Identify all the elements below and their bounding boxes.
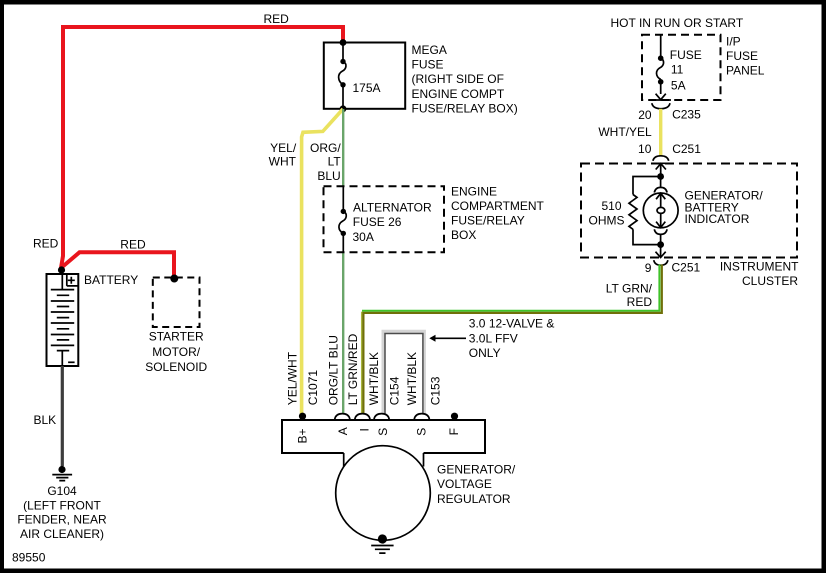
svg-text:(RIGHT SIDE OF: (RIGHT SIDE OF bbox=[412, 72, 504, 86]
svg-text:10: 10 bbox=[638, 142, 652, 156]
connector bump terminal I bbox=[355, 414, 370, 420]
svg-text:REGULATOR: REGULATOR bbox=[437, 492, 511, 506]
alternator fuse 26 box bbox=[324, 186, 445, 252]
svg-text:YEL/: YEL/ bbox=[270, 141, 297, 155]
wire RED battery to mega fuse bbox=[61, 27, 343, 268]
svg-text:STARTER: STARTER bbox=[149, 330, 204, 344]
svg-text:11: 11 bbox=[671, 63, 684, 77]
svg-text:GENERATOR/: GENERATOR/ bbox=[437, 463, 516, 477]
connector C235 bbox=[651, 100, 671, 109]
connector C251 bottom bbox=[654, 245, 668, 266]
svg-text:MEGA: MEGA bbox=[412, 43, 447, 57]
svg-text:FUSE/RELAY: FUSE/RELAY bbox=[451, 214, 525, 228]
svg-text:5A: 5A bbox=[671, 78, 686, 92]
svg-text:C251: C251 bbox=[672, 142, 701, 156]
mega fuse 175A bbox=[324, 39, 405, 112]
svg-text:WHT: WHT bbox=[269, 154, 297, 168]
node terminal B+ bbox=[299, 413, 306, 420]
svg-text:FUSE/RELAY BOX): FUSE/RELAY BOX) bbox=[412, 102, 518, 116]
svg-text:MOTOR/: MOTOR/ bbox=[152, 345, 200, 359]
node cluster top junction bbox=[657, 173, 664, 180]
label ENGINE COMPARTMENT FUSE/RELAY BOX bbox=[451, 185, 545, 243]
wire WHT/BLK jumper between S terminals bbox=[383, 331, 424, 413]
wire LT GRN/RED cluster to generator I (red stripe part) bbox=[363, 265, 661, 414]
svg-text:FUSE: FUSE bbox=[412, 58, 444, 72]
wire WHT/YEL fuse 11 to instrument cluster bbox=[659, 109, 662, 156]
wire LT GRN/RED cluster to generator I (green part) bbox=[362, 265, 659, 311]
svg-text:ENGINE COMPT: ENGINE COMPT bbox=[412, 87, 505, 101]
svg-text:3.0L FFV: 3.0L FFV bbox=[469, 331, 518, 345]
label G104 (LEFT FRONT FENDER, NEAR AIR CLEANER) bbox=[17, 484, 107, 541]
svg-text:RED: RED bbox=[120, 238, 146, 252]
label LT GRN/RED (right) bbox=[606, 282, 653, 310]
svg-text:FUSE 26: FUSE 26 bbox=[353, 215, 402, 229]
label FUSE 11 5A bbox=[670, 48, 702, 92]
svg-text:ENGINE: ENGINE bbox=[451, 185, 497, 199]
svg-text:ORG/LT BLU: ORG/LT BLU bbox=[326, 335, 340, 405]
label STARTER MOTOR/SOLENOID bbox=[145, 330, 207, 375]
wire BLK battery to ground bbox=[61, 366, 64, 466]
svg-text:3.0 12-VALVE &: 3.0 12-VALVE & bbox=[469, 317, 555, 331]
svg-text:9: 9 bbox=[645, 261, 652, 275]
svg-text:BOX: BOX bbox=[451, 228, 476, 242]
I/P fuse panel box bbox=[642, 35, 721, 100]
battery bbox=[47, 274, 79, 366]
node starter solenoid terminal bbox=[170, 275, 178, 283]
svg-text:C154: C154 bbox=[388, 376, 402, 405]
fuse 11 5A bbox=[656, 35, 666, 100]
svg-text:89550: 89550 bbox=[12, 551, 46, 565]
svg-text:HOT IN RUN OR START: HOT IN RUN OR START bbox=[611, 16, 744, 30]
ground generator case bbox=[371, 534, 393, 553]
generator/voltage regulator box bbox=[282, 420, 485, 540]
svg-text:AIR CLEANER): AIR CLEANER) bbox=[20, 527, 104, 541]
svg-text:20: 20 bbox=[638, 108, 652, 122]
svg-text:RED: RED bbox=[627, 295, 653, 309]
svg-text:F: F bbox=[447, 428, 461, 435]
starter motor/solenoid box bbox=[153, 278, 200, 328]
svg-text:S: S bbox=[414, 428, 428, 436]
svg-text:S: S bbox=[376, 428, 390, 436]
label MEGA FUSE (RIGHT SIDE OF ENGINE COMPT FUSE/RELAY BOX) bbox=[412, 43, 518, 116]
svg-text:C251: C251 bbox=[672, 260, 701, 274]
ground G104 bbox=[52, 466, 72, 481]
node battery positive junction bbox=[58, 266, 65, 273]
svg-text:510: 510 bbox=[601, 199, 621, 213]
svg-text:FENDER, NEAR: FENDER, NEAR bbox=[17, 513, 107, 527]
wire ORG/LT BLU mega fuse to alternator fuse bbox=[342, 109, 344, 186]
label ORG/LT BLU (top) bbox=[310, 141, 341, 183]
svg-text:OHMS: OHMS bbox=[589, 213, 625, 227]
svg-text:ALTERNATOR: ALTERNATOR bbox=[353, 201, 432, 215]
svg-text:BLU: BLU bbox=[317, 169, 340, 183]
svg-text:WHT/BLK: WHT/BLK bbox=[367, 352, 381, 405]
svg-text:G104: G104 bbox=[47, 484, 77, 498]
label I/P FUSE PANEL bbox=[726, 35, 765, 78]
svg-text:PANEL: PANEL bbox=[726, 63, 765, 77]
svg-text:(LEFT FRONT: (LEFT FRONT bbox=[23, 498, 101, 512]
svg-text:ONLY: ONLY bbox=[469, 346, 501, 360]
svg-text:I: I bbox=[358, 428, 372, 431]
svg-text:VOLTAGE: VOLTAGE bbox=[437, 477, 492, 491]
svg-text:ORG/: ORG/ bbox=[310, 141, 341, 155]
svg-text:RED: RED bbox=[33, 237, 59, 251]
connector C251 top half bbox=[652, 156, 668, 177]
svg-text:WHT/BLK: WHT/BLK bbox=[405, 352, 419, 405]
svg-text:LT: LT bbox=[328, 155, 342, 169]
svg-text:COMPARTMENT: COMPARTMENT bbox=[451, 199, 545, 213]
label arrow 3.0 12-VALVE & 3.0L FFV ONLY bbox=[429, 317, 554, 360]
label GENERATOR/VOLTAGE REGULATOR bbox=[437, 463, 516, 506]
svg-text:I/P: I/P bbox=[726, 35, 741, 49]
connector bump terminal S1 bbox=[374, 414, 389, 420]
svg-text:C153: C153 bbox=[429, 376, 443, 405]
svg-text:LT GRN/RED: LT GRN/RED bbox=[346, 333, 360, 405]
wire ORG/LT BLU alternator fuse to generator A bbox=[342, 252, 344, 413]
label YEL/WHT (top) bbox=[269, 141, 297, 168]
label INSTRUMENT CLUSTER bbox=[720, 259, 799, 288]
indicator lamp U1 generator/battery indicator bbox=[643, 177, 678, 245]
svg-text:SOLENOID: SOLENOID bbox=[145, 360, 207, 374]
svg-text:30A: 30A bbox=[353, 230, 374, 244]
svg-text:LT GRN/: LT GRN/ bbox=[606, 282, 653, 296]
svg-text:B+: B+ bbox=[296, 428, 310, 443]
svg-text:WHT/YEL: WHT/YEL bbox=[598, 125, 652, 139]
svg-text:BATTERY: BATTERY bbox=[84, 273, 138, 287]
wire RED battery to starter solenoid bbox=[61, 252, 174, 276]
node cluster bottom junction bbox=[657, 241, 664, 248]
svg-text:C1071: C1071 bbox=[306, 370, 320, 406]
svg-text:BLK: BLK bbox=[34, 413, 57, 427]
svg-text:175A: 175A bbox=[353, 81, 381, 95]
svg-text:CLUSTER: CLUSTER bbox=[742, 274, 798, 288]
label 510 OHMS bbox=[589, 199, 625, 227]
connector bump terminal A bbox=[335, 414, 350, 420]
svg-text:YEL/WHT: YEL/WHT bbox=[285, 351, 299, 405]
svg-text:RED: RED bbox=[264, 12, 290, 26]
svg-text:INDICATOR: INDICATOR bbox=[685, 212, 750, 226]
alternator fuse 26 element bbox=[339, 186, 346, 252]
svg-text:FUSE: FUSE bbox=[670, 48, 702, 62]
label GENERATOR/BATTERY INDICATOR bbox=[685, 189, 764, 227]
instrument cluster box bbox=[581, 164, 797, 258]
svg-text:INSTRUMENT: INSTRUMENT bbox=[720, 259, 799, 273]
svg-text:C235: C235 bbox=[672, 108, 701, 122]
svg-text:FUSE: FUSE bbox=[726, 49, 758, 63]
resistor 510 ohms bbox=[629, 177, 661, 245]
wire YEL/WHT mega fuse to generator B+ bbox=[302, 109, 343, 417]
node terminal F bbox=[451, 413, 458, 420]
connector bump terminal S2 bbox=[414, 414, 429, 420]
svg-text:A: A bbox=[336, 427, 350, 435]
label ALTERNATOR FUSE 26 30A bbox=[353, 201, 433, 244]
